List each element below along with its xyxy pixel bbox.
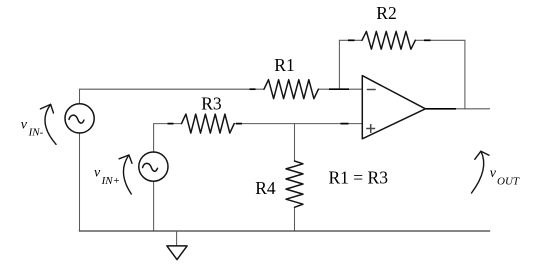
svg-text:R4: R4 [255,178,276,198]
svg-text:v: v [94,166,101,181]
svg-text:R1: R1 [274,55,294,75]
svg-text:R3: R3 [201,94,222,114]
svg-text:OUT: OUT [497,175,520,187]
svg-text:R2: R2 [376,3,396,23]
svg-text:v: v [490,166,497,181]
svg-text:IN+: IN+ [101,175,120,187]
svg-text:IN-: IN- [28,126,44,138]
svg-text:v: v [21,118,28,133]
svg-text:R1 = R3: R1 = R3 [329,168,389,188]
